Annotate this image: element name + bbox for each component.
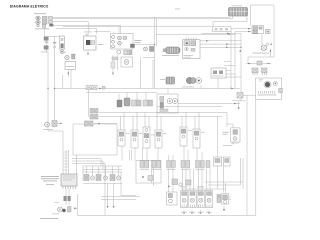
svg-text:DIAGRAMA ELÉTRICO: DIAGRAMA ELÉTRICO: [10, 3, 49, 8]
